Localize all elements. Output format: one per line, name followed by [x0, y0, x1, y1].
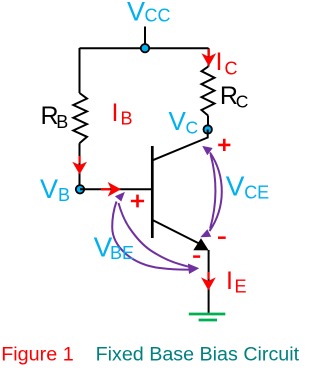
resistor RB: [73, 93, 87, 143]
svg-text:Fixed Base Bias Circuit: Fixed Base Bias Circuit: [96, 344, 300, 366]
svg-text:CC: CC: [145, 6, 171, 26]
label plus at base: [131, 195, 144, 208]
label plus at collector: [218, 139, 230, 151]
svg-text:V: V: [169, 106, 187, 136]
label minus at VCE bottom: [218, 236, 226, 239]
arrow IB current down: [78, 156, 80, 163]
node VC dot: [204, 125, 212, 133]
svg-text:CE: CE: [244, 182, 269, 202]
ground: [189, 313, 226, 316]
svg-text:B: B: [121, 109, 133, 129]
wire emitter down: [208, 250, 210, 314]
transistor Q1 base bar: [151, 146, 154, 238]
label minus at emitter: [193, 255, 200, 258]
svg-text:E: E: [235, 277, 247, 297]
svg-text:I: I: [226, 267, 233, 295]
svg-text:C: C: [186, 118, 199, 138]
wire right vertical from rail to RC: [208, 48, 210, 67]
wire RB bottom to base node: [79, 143, 81, 189]
arrow IC current down: [208, 49, 210, 56]
svg-text:Figure 1: Figure 1: [1, 344, 74, 366]
wire top horizontal Vcc rail: [80, 47, 209, 49]
resistor RC: [202, 67, 215, 116]
svg-text:C: C: [225, 59, 238, 79]
svg-text:C: C: [236, 92, 249, 112]
transistor Q1 emitter arrowhead: [193, 238, 208, 250]
arc VBE voltage arrow (crescent double arrow): [112, 202, 191, 270]
svg-text:BE: BE: [110, 243, 134, 263]
transistor Q1 collector lead: [153, 130, 208, 161]
node VB dot: [76, 185, 84, 193]
arrow IB into base: [101, 188, 110, 190]
svg-text:B: B: [58, 185, 70, 205]
wire RC bottom to collector node: [207, 116, 209, 126]
svg-text:B: B: [56, 112, 68, 132]
wire Vcc stub: [144, 27, 146, 49]
svg-text:I: I: [112, 99, 119, 127]
node Vcc junction dot: [141, 44, 149, 52]
svg-text:I: I: [216, 48, 223, 76]
svg-text:V: V: [226, 170, 245, 201]
wire base: [80, 188, 152, 190]
svg-text:V: V: [40, 174, 58, 204]
transistor Q1 emitter lead: [153, 220, 204, 246]
arc VCE voltage arrow (crescent double arrow): [210, 153, 222, 232]
svg-text:V: V: [127, 0, 145, 27]
wire left vertical from rail to RB: [79, 48, 81, 93]
arrow IE current down: [207, 272, 209, 279]
